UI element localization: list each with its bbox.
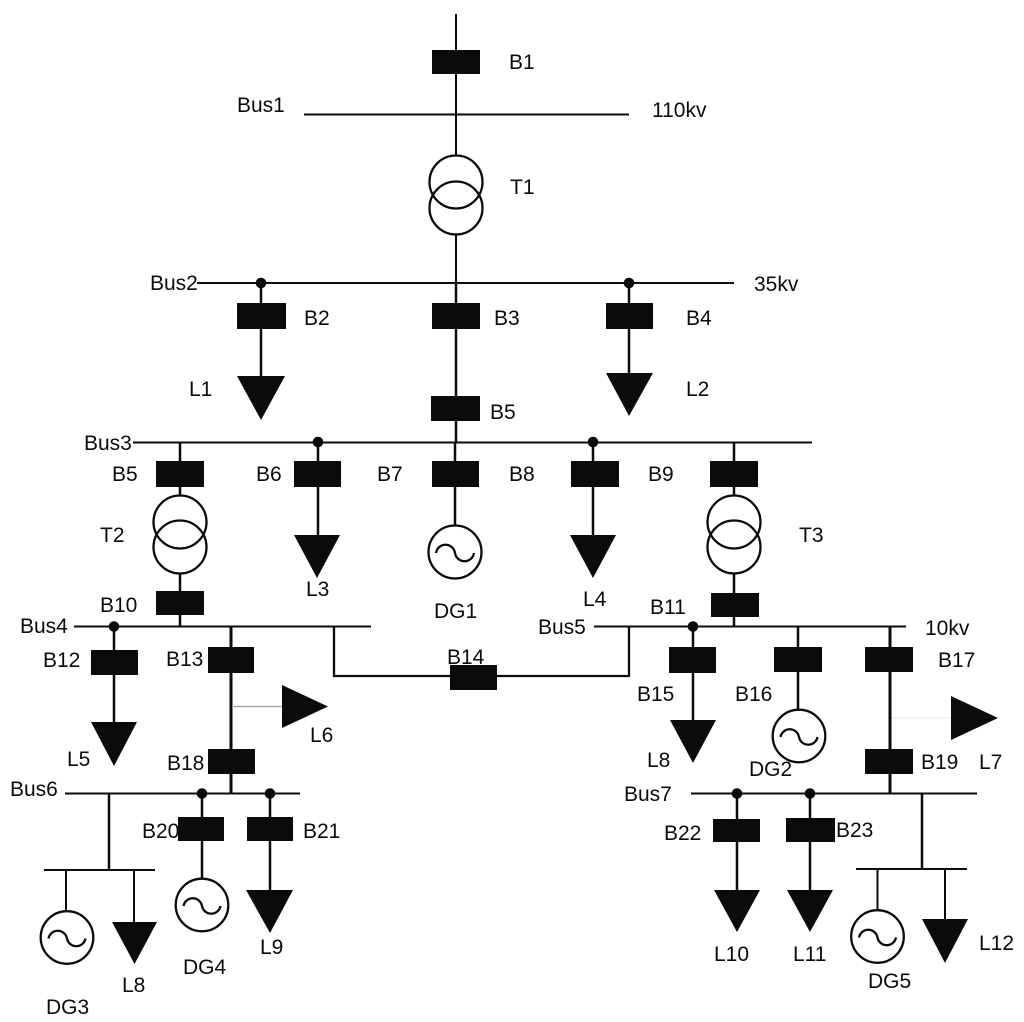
svg-text:B21: B21	[303, 820, 340, 843]
breaker B13	[209, 648, 253, 672]
svg-text:B15: B15	[637, 683, 674, 706]
svg-text:L3: L3	[306, 578, 329, 601]
junction dot Bus2-B4	[624, 278, 635, 289]
svg-text:T1: T1	[510, 176, 535, 199]
wire Bus5 to DG2	[797, 626, 800, 710]
junction dot Bus6-B21	[265, 788, 276, 799]
svg-text:DG2: DG2	[749, 758, 792, 781]
svg-text:Bus7: Bus7	[624, 783, 672, 806]
breaker B10	[157, 592, 203, 614]
svg-text:L2: L2	[686, 378, 709, 401]
junction dot Bus4-B12	[109, 621, 120, 632]
svg-text:Bus6: Bus6	[10, 778, 58, 801]
svg-text:B23: B23	[836, 819, 873, 842]
wire Bus6 to DG4	[201, 793, 204, 879]
wire Bus2 to Bus3 trunk	[455, 283, 458, 442]
wire Bus6 to sub-bus	[108, 793, 111, 870]
wire Bus4 to L5	[113, 626, 116, 723]
svg-text:Bus5: Bus5	[538, 616, 586, 639]
breaker B8	[572, 462, 618, 486]
load L3 arrow	[294, 535, 340, 578]
breaker B4	[607, 304, 652, 328]
load L6 arrow	[282, 685, 328, 728]
load L4 arrow	[570, 535, 616, 578]
svg-text:L9: L9	[260, 936, 283, 959]
breaker B18	[209, 750, 254, 773]
svg-text:Bus2: Bus2	[150, 272, 198, 295]
svg-text:L12: L12	[979, 932, 1014, 955]
wire Bus3 to T2	[179, 442, 182, 496]
wire sub-bus to L8	[133, 870, 135, 923]
wire B1 to Bus1	[455, 73, 457, 114]
svg-text:L8: L8	[122, 974, 145, 997]
svg-text:B12: B12	[43, 649, 80, 672]
svg-text:B9: B9	[648, 463, 674, 486]
svg-text:B22: B22	[664, 822, 701, 845]
wire Bus7 to L11	[809, 793, 812, 892]
breaker B15	[670, 648, 715, 672]
svg-text:B5: B5	[112, 463, 138, 486]
svg-text:B14: B14	[447, 646, 485, 669]
wire T2 to Bus4	[179, 573, 182, 626]
wire Bus4 to Bus6 (B13/B18 column)	[230, 626, 233, 793]
svg-text:L11: L11	[793, 943, 826, 966]
load L2 arrow	[606, 373, 653, 416]
wire Bus7 to L10	[736, 793, 739, 892]
breaker B21	[248, 818, 292, 840]
breaker B22	[714, 820, 759, 841]
wire Bus3 to DG1	[454, 442, 457, 526]
svg-text:B18: B18	[167, 752, 204, 775]
bus Bus1 110kv	[304, 114, 629, 116]
bus Bus5 10kv	[594, 626, 906, 628]
svg-text:B17: B17	[938, 649, 975, 672]
wire Bus3 to L3	[317, 442, 320, 536]
breaker B2	[238, 304, 285, 328]
svg-text:DG3: DG3	[46, 996, 89, 1019]
breaker B19	[866, 750, 912, 773]
junction dot Bus7-B22	[732, 788, 743, 799]
svg-text:35kv: 35kv	[754, 273, 799, 296]
breaker B7	[433, 462, 478, 486]
breaker B9	[711, 462, 757, 486]
breaker B6	[295, 462, 340, 486]
breaker B20	[179, 818, 223, 840]
svg-text:B4: B4	[686, 307, 712, 330]
load L1 arrow	[237, 376, 285, 420]
svg-text:L6: L6	[310, 724, 333, 747]
junction dot Bus3-B8	[588, 437, 599, 448]
wire stub to L7	[892, 717, 951, 719]
bus Bus4 10kv	[74, 626, 371, 628]
breaker B17	[866, 648, 912, 671]
sub-bus DG5/L12	[856, 868, 967, 870]
wire incoming feeder to B1	[455, 14, 457, 52]
breaker B14	[451, 666, 496, 689]
load L8 arrow (Bus6)	[112, 922, 157, 964]
svg-text:Bus4: Bus4	[20, 615, 68, 638]
bus Bus7	[691, 793, 977, 795]
svg-text:110kv: 110kv	[652, 99, 707, 122]
svg-text:B6: B6	[256, 463, 282, 486]
svg-text:T2: T2	[100, 524, 125, 547]
junction dot Bus3-B6	[313, 437, 324, 448]
bus Bus2 35kv	[197, 282, 734, 284]
generator DG1	[429, 526, 482, 579]
wire Bus7 to sub-bus	[921, 793, 924, 869]
breaker B16	[775, 648, 821, 671]
svg-text:DG1: DG1	[434, 600, 477, 623]
generator DG4	[176, 879, 229, 932]
wire tie Bus4 to Bus5 through B14	[334, 626, 629, 676]
load L10 arrow	[714, 890, 760, 932]
bus Bus6	[65, 793, 300, 795]
junction dot Bus6-B20	[197, 788, 208, 799]
bus Bus3	[133, 442, 812, 444]
wire T1 to Bus2	[455, 235, 457, 283]
wire Bus5 to L8	[692, 626, 695, 721]
svg-text:B1: B1	[509, 51, 535, 74]
wire Bus6 to L9	[269, 793, 272, 891]
generator DG3	[41, 911, 94, 964]
svg-text:B8: B8	[509, 463, 535, 486]
svg-text:Bus3: Bus3	[84, 432, 132, 455]
svg-text:DG4: DG4	[183, 956, 227, 979]
svg-text:DG5: DG5	[868, 970, 911, 993]
breaker B1	[433, 51, 479, 73]
wire sub-bus to L12	[944, 869, 946, 921]
generator DG5	[851, 910, 904, 963]
breaker B12	[92, 651, 137, 674]
load L11 arrow	[787, 890, 833, 932]
svg-text:L4: L4	[583, 588, 607, 611]
svg-text:L7: L7	[979, 751, 1002, 774]
junction dot Bus7-B23	[805, 788, 816, 799]
svg-text:L10: L10	[714, 943, 749, 966]
load L7 arrow	[951, 696, 998, 740]
junction dot Bus2-B2	[256, 278, 267, 289]
breaker B3	[433, 304, 479, 328]
wire stub to L6	[232, 706, 283, 708]
wire Bus1 to T1	[455, 114, 457, 156]
wire Bus2 to L1	[260, 283, 263, 377]
breaker B5 (T2 column)	[157, 462, 203, 486]
sub-bus DG3/L8	[44, 869, 155, 871]
wire sub-bus to DG3	[65, 870, 67, 912]
wire Bus5 to Bus7 (B17/B19 column)	[889, 626, 892, 793]
breaker B11	[712, 594, 758, 616]
svg-text:L1: L1	[189, 378, 212, 401]
load L12 arrow	[922, 919, 968, 963]
svg-text:L8: L8	[647, 749, 670, 772]
svg-text:B20: B20	[142, 820, 179, 843]
load L9 arrow	[246, 890, 293, 933]
wire Bus3 to L4	[592, 442, 595, 536]
transformer T3	[708, 496, 761, 549]
breaker B23	[787, 819, 834, 841]
transformer T1	[430, 156, 483, 209]
svg-text:B2: B2	[304, 307, 330, 330]
wire Bus3 to T3	[733, 442, 736, 496]
svg-text:B10: B10	[100, 594, 137, 617]
wire sub-bus to DG5	[877, 869, 879, 912]
svg-text:10kv: 10kv	[925, 617, 970, 640]
wire T3 to Bus5	[733, 573, 736, 626]
svg-text:T3: T3	[799, 524, 824, 547]
svg-text:B13: B13	[166, 648, 203, 671]
svg-text:B7: B7	[377, 463, 403, 486]
svg-text:B16: B16	[735, 683, 772, 706]
wire Bus2 to L2	[628, 283, 631, 374]
transformer T2	[154, 496, 207, 549]
svg-text:B3: B3	[494, 307, 520, 330]
svg-text:L5: L5	[67, 748, 90, 771]
load L5 arrow	[91, 722, 137, 766]
svg-text:B5: B5	[490, 401, 516, 424]
breaker B5 (feeder)	[432, 397, 479, 420]
svg-text:B11: B11	[650, 596, 686, 619]
generator DG2	[773, 710, 826, 763]
svg-text:Bus1: Bus1	[237, 94, 285, 117]
junction dot Bus5-B15	[688, 621, 699, 632]
svg-text:B19: B19	[921, 751, 958, 774]
load L8 arrow (Bus5)	[670, 720, 716, 763]
